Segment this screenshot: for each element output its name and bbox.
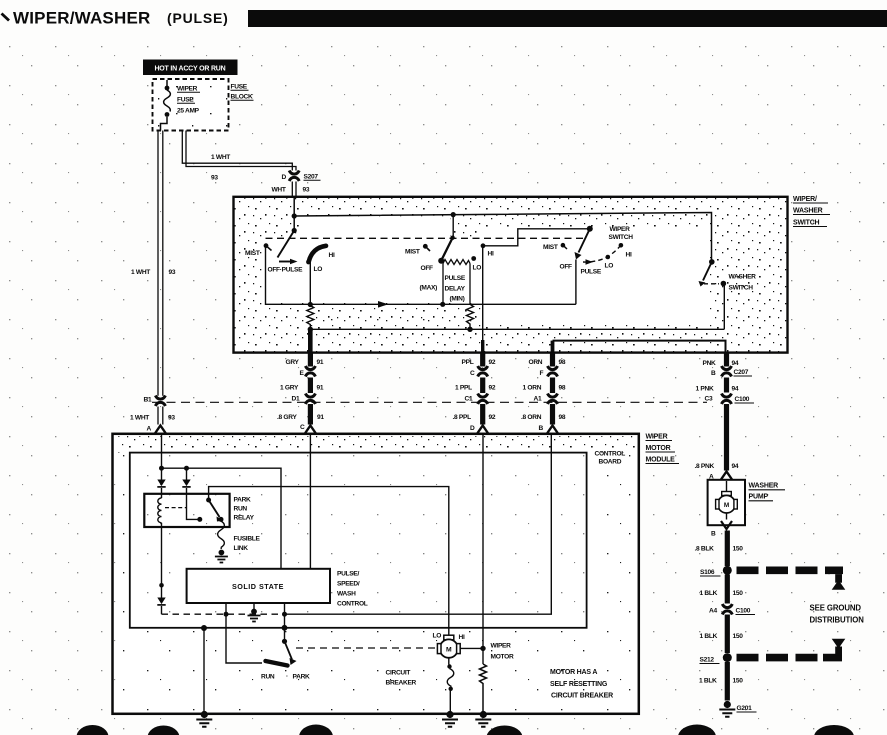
left switch MIST contact — [245, 243, 272, 257]
svg-text:BREAKER: BREAKER — [386, 680, 417, 687]
svg-text:MIST: MIST — [405, 249, 420, 256]
wire PPL exit — [482, 246, 484, 353]
svg-text:GRY: GRY — [286, 359, 300, 366]
svg-text:F: F — [540, 370, 544, 377]
diode D3 — [157, 583, 165, 614]
arrow into washer pump pin A — [721, 472, 732, 480]
wire GRY exit — [308, 329, 313, 352]
svg-text:93: 93 — [303, 187, 310, 194]
svg-text:SWITCH: SWITCH — [793, 220, 820, 227]
label .8 GRY 91 — [277, 414, 324, 431]
svg-text:LO: LO — [314, 266, 323, 273]
label WIPER MOTOR MODULE — [646, 434, 680, 464]
svg-text:94: 94 — [732, 360, 739, 367]
washer switch contact — [704, 274, 756, 292]
lower bus wire — [308, 327, 725, 332]
splice S106 — [700, 566, 732, 576]
middle switch LO contact — [471, 256, 481, 271]
wire relay wiper to motor — [209, 487, 449, 636]
wire solid state pin to park pivot — [282, 603, 288, 641]
svg-text:93: 93 — [168, 415, 175, 422]
note motor self resetting — [550, 669, 613, 700]
HOT IN ACCY OR RUN feed label — [143, 60, 238, 76]
wire 1 BLK 150 (c) — [699, 662, 743, 701]
label 1 WHT 93 below B1 — [130, 415, 175, 433]
svg-text:(MAX): (MAX) — [420, 285, 438, 292]
svg-text:BOARD: BOARD — [599, 459, 622, 466]
svg-text:CONTROL: CONTROL — [337, 601, 368, 608]
wire B inside module — [285, 434, 552, 614]
svg-text:FUSIBLE: FUSIBLE — [234, 536, 261, 543]
wire C inside module — [309, 434, 311, 569]
svg-text:SEE GROUND: SEE GROUND — [810, 604, 862, 613]
wire D inside module — [482, 434, 484, 664]
scan blob 4 — [487, 726, 523, 735]
svg-text:M: M — [724, 502, 729, 509]
label WASHER PUMP — [749, 483, 786, 501]
wire ORN 98 column — [529, 353, 566, 425]
svg-text:1 GRY: 1 GRY — [280, 385, 299, 392]
svg-text:LO: LO — [433, 633, 442, 640]
svg-text:B: B — [711, 531, 716, 538]
scan blob 5 — [678, 725, 716, 735]
svg-text:A4: A4 — [709, 608, 717, 615]
connector C207 on PNK — [711, 366, 752, 377]
svg-text:C207: C207 — [734, 369, 749, 376]
middle switch OFF label — [421, 265, 434, 272]
wire motor HI to D — [460, 646, 485, 651]
svg-text:D: D — [470, 425, 475, 432]
diode D2 — [182, 468, 200, 519]
svg-text:DISTRIBUTION: DISTRIBUTION — [810, 616, 865, 625]
svg-text:92: 92 — [489, 359, 496, 366]
wire GRY 91 column — [286, 353, 324, 425]
svg-text:A: A — [147, 426, 152, 433]
title WIPER/WASHER (PULSE) — [13, 9, 229, 28]
right switch MIST contact — [543, 243, 567, 251]
svg-text:LINK: LINK — [234, 545, 249, 552]
svg-text:LO: LO — [473, 265, 482, 272]
dashed link S212 to ground distribution — [737, 639, 846, 662]
svg-text:1 WHT: 1 WHT — [211, 154, 230, 161]
svg-text:PARK: PARK — [293, 674, 311, 681]
fusible link — [218, 519, 261, 552]
connector F on ORN — [540, 366, 558, 377]
right switch contact arc labels — [560, 252, 632, 276]
wire solid state pin to run contact — [224, 603, 263, 663]
svg-text:C3: C3 — [705, 396, 713, 403]
svg-text:C: C — [470, 370, 475, 377]
header black bar — [248, 10, 887, 27]
connector alignment dashed line — [152, 401, 707, 403]
wiper motor module box — [113, 434, 639, 714]
ground module left — [196, 711, 212, 727]
svg-text:WIPER: WIPER — [646, 434, 668, 441]
svg-text:C100: C100 — [735, 396, 750, 403]
svg-text:ORN: ORN — [529, 359, 543, 366]
svg-text:CIRCUIT BREAKER: CIRCUIT BREAKER — [551, 693, 613, 700]
svg-text:C1: C1 — [465, 396, 473, 403]
svg-text:FUSE: FUSE — [177, 97, 194, 104]
wire 1 BLK 150 (b) — [700, 615, 744, 654]
svg-text:PNK: PNK — [703, 360, 717, 367]
svg-text:.8 PNK: .8 PNK — [695, 463, 715, 470]
svg-text:S212: S212 — [700, 657, 715, 664]
connector C100 ground — [709, 604, 755, 615]
connector E on GRY — [300, 366, 316, 377]
svg-text:1 ORN: 1 ORN — [523, 385, 542, 392]
wiper/washer switch box — [234, 197, 788, 353]
svg-text:HI: HI — [488, 251, 494, 258]
svg-text:91: 91 — [317, 414, 324, 421]
dashed run park to motor — [296, 647, 437, 649]
svg-text:PARK: PARK — [234, 497, 252, 504]
svg-text:MIST: MIST — [543, 244, 558, 251]
svg-text:RUN: RUN — [234, 506, 248, 513]
relay coil link dashed — [165, 507, 187, 509]
svg-text:RUN: RUN — [261, 674, 275, 681]
wire .8 BLK 150 — [695, 531, 744, 567]
svg-text:150: 150 — [733, 633, 744, 640]
solid state box — [187, 569, 330, 603]
arrow out of washer pump pin B — [711, 521, 732, 538]
svg-text:91: 91 — [317, 385, 324, 392]
scan blob 6 — [814, 725, 854, 735]
pulse delay rheostat box — [420, 260, 471, 305]
svg-text:1 PPL: 1 PPL — [455, 385, 472, 392]
svg-text:LO: LO — [605, 263, 614, 270]
svg-text:B: B — [539, 425, 544, 432]
svg-text:B1: B1 — [144, 397, 152, 404]
svg-text:.8 ORN: .8 ORN — [521, 414, 542, 421]
connector C100 on PNK — [705, 394, 755, 405]
wire washer contact down — [723, 284, 725, 330]
svg-text:94: 94 — [732, 463, 739, 470]
label pulse/speed/wash control — [337, 571, 368, 608]
svg-text:98: 98 — [559, 385, 566, 392]
dashed park feedback wire — [162, 613, 285, 615]
svg-text:C100: C100 — [736, 608, 751, 615]
svg-text:SOLID STATE: SOLID STATE — [232, 582, 284, 591]
scan blob 2 — [148, 726, 180, 735]
svg-text:1 BLK: 1 BLK — [699, 678, 717, 685]
svg-text:RELAY: RELAY — [234, 515, 255, 522]
connector A1 on ORN — [534, 394, 558, 405]
svg-text:98: 98 — [559, 359, 566, 366]
title tick mark — [2, 14, 10, 21]
svg-text:CIRCUIT: CIRCUIT — [386, 670, 411, 677]
ground solid state — [248, 603, 261, 622]
svg-text:FUSE: FUSE — [231, 84, 248, 91]
svg-text:HI: HI — [626, 252, 632, 259]
svg-text:·: · — [286, 673, 288, 680]
svg-text:S106: S106 — [700, 569, 715, 576]
svg-text:92: 92 — [489, 385, 496, 392]
svg-text:94: 94 — [732, 386, 739, 393]
svg-text:1 BLK: 1 BLK — [700, 590, 718, 597]
svg-text:WASHER: WASHER — [793, 208, 823, 215]
svg-text:BLOCK: BLOCK — [231, 94, 253, 101]
svg-text:1 BLK: 1 BLK — [700, 633, 718, 640]
svg-text:MODULE: MODULE — [646, 457, 676, 464]
label SEE GROUND DISTRIBUTION — [810, 604, 865, 625]
arrow into module pin D — [477, 426, 488, 434]
ground wiper motor — [442, 711, 458, 727]
svg-text:WIPER: WIPER — [491, 643, 512, 650]
label WIPER SWITCH — [609, 226, 634, 241]
svg-text:OFF: OFF — [560, 264, 573, 271]
wiper motor — [433, 633, 465, 658]
label 1 PNK 94 — [696, 386, 739, 393]
middle switch HI contact — [481, 243, 494, 257]
washer switch pivot and arm — [699, 259, 715, 286]
svg-text:S207: S207 — [304, 174, 319, 181]
wire LO contact down — [308, 262, 313, 307]
svg-text:DELAY: DELAY — [445, 286, 466, 293]
wire 1 BLK 150 (a) — [700, 575, 744, 604]
svg-text:MIST: MIST — [245, 250, 260, 257]
wire WHT into switch — [292, 197, 297, 234]
middle switch arm — [438, 238, 452, 264]
relay coil — [158, 488, 162, 585]
left switch labels — [268, 252, 335, 274]
ground fusible link — [215, 550, 228, 563]
wire A inside module — [159, 434, 164, 480]
wire switch feed bus — [294, 212, 711, 262]
svg-text:150: 150 — [733, 546, 744, 553]
middle switch feed wire — [450, 215, 454, 240]
left switch contact arc — [306, 246, 326, 265]
ground wire left — [201, 625, 207, 712]
arrow into module pin C — [305, 426, 316, 434]
svg-text:B: B — [711, 370, 716, 377]
resistor on wire D — [480, 664, 487, 712]
connector C on PPL — [470, 366, 488, 377]
connector C1 on PPL — [465, 394, 488, 405]
svg-text:WASHER: WASHER — [729, 274, 757, 281]
svg-text:HI: HI — [329, 252, 335, 259]
svg-text:A1: A1 — [534, 396, 542, 403]
svg-text:SELF RESETTING: SELF RESETTING — [550, 681, 608, 688]
arrow into module pin A — [155, 426, 166, 434]
svg-text:CONTROL: CONTROL — [595, 451, 626, 458]
svg-text:25 AMP: 25 AMP — [177, 108, 200, 115]
washer pump box — [708, 480, 745, 525]
svg-text:WIPER/WASHER: WIPER/WASHER — [13, 9, 150, 28]
svg-text:SWITCH: SWITCH — [609, 234, 634, 241]
wire ORN link to PNK exit — [553, 341, 726, 353]
svg-text:OFF·PULSE: OFF·PULSE — [268, 267, 304, 274]
svg-text:OFF: OFF — [421, 265, 434, 272]
svg-text:WIPER: WIPER — [610, 226, 631, 233]
washer pump motor — [716, 481, 738, 520]
svg-text:150: 150 — [733, 678, 744, 685]
svg-text:1 PNK: 1 PNK — [696, 386, 714, 393]
svg-text:MOTOR: MOTOR — [646, 445, 671, 452]
fuse WIPER FUSE 25 AMP — [161, 80, 201, 131]
svg-text:1 WHT: 1 WHT — [130, 415, 149, 422]
label 1 PPL 92 — [455, 385, 496, 392]
svg-text:PULSE/: PULSE/ — [337, 571, 359, 578]
svg-text:WASH: WASH — [337, 591, 356, 598]
connector D1 on GRY — [292, 394, 316, 405]
scan blob 1 — [77, 725, 109, 735]
resistor below LO contact — [307, 306, 314, 330]
label WIPER/WASHER SWITCH — [793, 196, 830, 227]
right wiper switch pivot and arm — [575, 226, 593, 260]
control board box — [130, 451, 625, 628]
svg-text:G201: G201 — [737, 705, 753, 712]
FUSE BLOCK label — [231, 84, 254, 101]
ground wire D — [475, 711, 491, 727]
wire MIST to delay (L1) — [266, 246, 446, 308]
relay contacts — [197, 498, 223, 522]
svg-text:.8 BLK: .8 BLK — [695, 546, 715, 553]
svg-text:.8 GRY: .8 GRY — [277, 414, 297, 421]
left wiper switch arm — [278, 231, 298, 265]
label WIPER MOTOR — [491, 643, 514, 661]
svg-text:.8 PPL: .8 PPL — [453, 414, 472, 421]
svg-text:93: 93 — [211, 175, 218, 182]
ground G201 — [719, 701, 756, 717]
svg-text:WHT: WHT — [272, 187, 286, 194]
diode D1 on wire A — [157, 480, 165, 487]
right switch contact arc — [583, 243, 623, 265]
wire 1 WHT 93 left feed (double line) — [131, 131, 176, 425]
svg-text:MOTOR HAS A: MOTOR HAS A — [550, 669, 597, 676]
svg-text:PULSE: PULSE — [581, 269, 602, 276]
svg-text:93: 93 — [169, 269, 176, 276]
resistor below delay box — [467, 304, 474, 329]
svg-text:WASHER: WASHER — [749, 483, 779, 490]
connector S207 — [272, 171, 321, 194]
svg-text:(MIN): (MIN) — [450, 296, 465, 303]
svg-text:98: 98 — [559, 414, 566, 421]
wire HI to right switch pivot — [483, 229, 590, 246]
arrow into module pin B — [547, 426, 558, 434]
label .8 PNK 94 — [695, 463, 739, 481]
svg-text:WIPER/: WIPER/ — [793, 196, 817, 203]
circuit breaker — [386, 658, 454, 712]
wire 1 WHT fuse to S207 (double line) — [182, 131, 296, 197]
svg-text:WIPER: WIPER — [177, 86, 198, 93]
svg-text:PUMP: PUMP — [749, 494, 769, 501]
svg-text:150: 150 — [733, 590, 744, 597]
wire PNK 94 column — [703, 353, 739, 471]
middle switch MIST contact — [405, 244, 430, 256]
label .8 ORN 98 — [521, 414, 566, 432]
wire PPL 92 column — [462, 353, 496, 425]
svg-text:HOT IN ACCY OR RUN: HOT IN ACCY OR RUN — [154, 66, 225, 73]
label 1 ORN 98 — [523, 385, 566, 392]
svg-text:D: D — [282, 174, 287, 181]
connector B1 on left feed — [144, 396, 166, 407]
label .8 PPL 92 — [453, 414, 496, 432]
svg-text:1 WHT: 1 WHT — [131, 269, 150, 276]
mechanical link dashed line — [266, 237, 587, 239]
splice S212 — [700, 653, 732, 663]
svg-text:SPEED/: SPEED/ — [337, 581, 360, 588]
fuse block box — [153, 79, 229, 131]
svg-text:M: M — [446, 647, 452, 654]
svg-text:C: C — [300, 424, 305, 431]
svg-text:92: 92 — [489, 414, 496, 421]
dashed link S106 to ground distribution — [737, 567, 846, 590]
wire relay feed to solid state — [162, 466, 282, 569]
park run relay box — [144, 494, 254, 527]
svg-text:HI: HI — [459, 634, 465, 641]
wire delay box bottom to right switch OFF — [443, 260, 576, 305]
wire ORN exit — [551, 341, 555, 353]
svg-text:PPL: PPL — [462, 359, 474, 366]
svg-text:91: 91 — [317, 359, 324, 366]
run park switch — [261, 639, 310, 681]
label 1 GRY 91 — [280, 385, 324, 392]
svg-text:MOTOR: MOTOR — [491, 654, 514, 661]
svg-text:D1: D1 — [292, 396, 300, 403]
svg-text:PULSE: PULSE — [445, 275, 466, 282]
scan blob 3 — [299, 725, 333, 735]
svg-text:SWITCH: SWITCH — [729, 285, 754, 292]
svg-text:(PULSE): (PULSE) — [167, 10, 229, 26]
